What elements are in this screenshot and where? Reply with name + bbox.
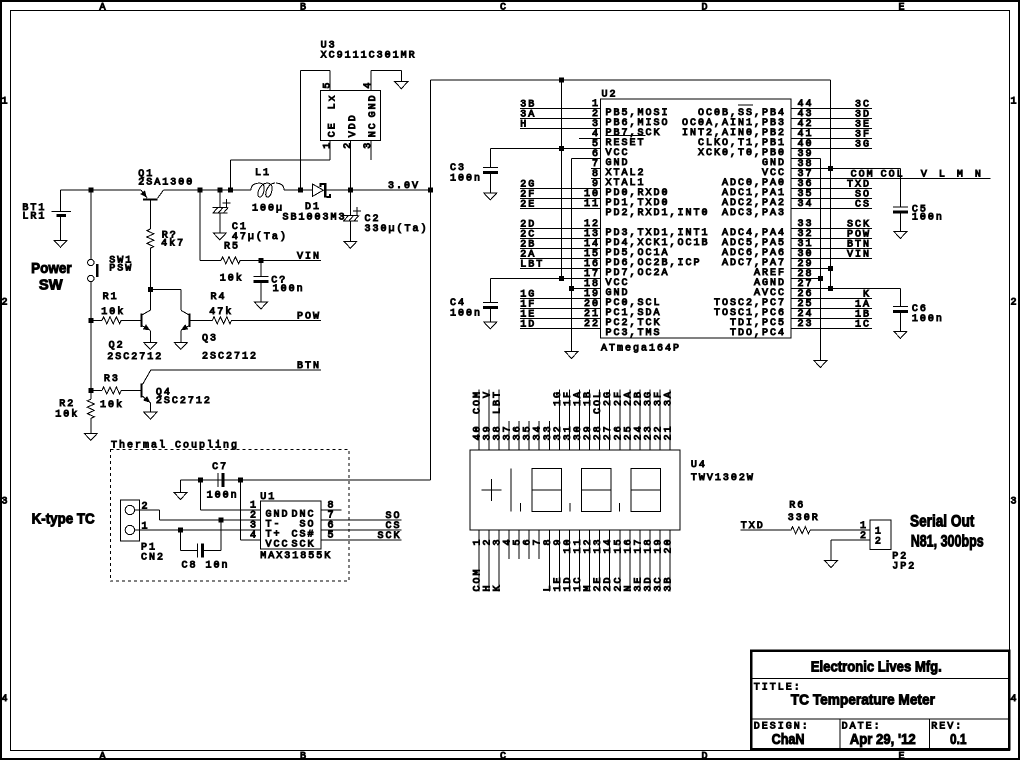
svg-text:VIN: VIN (297, 251, 321, 262)
svg-text:L1: L1 (255, 168, 271, 179)
capacitor C1 47u(Ta) (212, 190, 288, 243)
ground below U2 left (565, 352, 578, 359)
svg-text:BTN: BTN (297, 361, 321, 372)
net 3.0V (388, 181, 420, 192)
svg-text:U2: U2 (602, 89, 618, 100)
svg-text:B: B (300, 3, 308, 14)
wire U2 pin17 row (490, 278, 600, 280)
node VCC branch U2 left (559, 78, 564, 83)
wire ground stub C7 (180, 480, 182, 493)
svg-text:LBT: LBT (492, 390, 503, 414)
wire collector link to Q3 (150, 290, 181, 311)
ground below C4 (484, 322, 497, 329)
svg-text:TXD: TXD (741, 521, 765, 532)
svg-text:COL: COL (881, 170, 905, 181)
svg-text:E: E (898, 3, 906, 14)
svg-text:100n: 100n (207, 490, 239, 501)
wire U1 pin6 CS (321, 521, 402, 532)
svg-text:Q3: Q3 (202, 334, 218, 345)
ground below C? (254, 302, 267, 309)
U2 left pin numbers and stubs (584, 99, 601, 330)
wire U3 pin1 CE to rail (230, 140, 330, 190)
svg-text:A: A (99, 3, 107, 14)
svg-text:A: A (99, 752, 107, 760)
svg-text:100n: 100n (450, 174, 482, 185)
ground at P2 (825, 561, 838, 568)
wire U2 pin39 GND vertical right (791, 159, 821, 361)
svg-text:PSW: PSW (109, 264, 133, 275)
node R5 tap (198, 188, 203, 193)
LCD decimal point 3 (618, 503, 620, 511)
capacitor C8 10n (181, 520, 230, 572)
LCD digit 3 (631, 469, 661, 512)
wire pin27 AVCC to C6 (791, 289, 901, 307)
svg-text:4: 4 (363, 81, 374, 89)
net COM COL V L M N (791, 170, 991, 181)
label Power SW (31, 260, 72, 293)
svg-text:D: D (701, 752, 709, 760)
ground below Q4 (144, 412, 157, 419)
svg-text:3A: 3A (664, 390, 675, 406)
label K-type TC (32, 511, 95, 528)
svg-text:10k: 10k (101, 306, 125, 318)
svg-text:3: 3 (1010, 497, 1018, 508)
capacitor C5 100n (893, 205, 944, 232)
ground below C5 (894, 232, 907, 239)
svg-text:ADC3,PA3: ADC3,PA3 (722, 208, 786, 219)
inductor L1 100u (251, 168, 284, 215)
svg-text:3: 3 (1, 497, 9, 508)
svg-text:21: 21 (664, 424, 675, 440)
svg-text:0.1: 0.1 (950, 731, 967, 748)
svg-text:SB1003M3: SB1003M3 (283, 213, 347, 224)
svg-text:100n: 100n (450, 309, 482, 320)
svg-text:1C: 1C (855, 320, 871, 331)
svg-text:2: 2 (1010, 298, 1018, 309)
wire P1 pin1 to U1 T+ (135, 529, 261, 531)
svg-text:4k7: 4k7 (161, 238, 185, 250)
svg-text:N: N (975, 170, 983, 181)
resistor R? 4k7 (147, 229, 185, 290)
wire U1 pin5 SCK (321, 531, 402, 542)
svg-text:Thermal Coupling: Thermal Coupling (111, 439, 239, 451)
svg-text:Lx: Lx (327, 93, 338, 109)
transistor Q2 2SC2712 (107, 290, 163, 363)
ground at U3 pin4 (395, 82, 408, 89)
wire U1 pin8 DNC stub (321, 509, 342, 511)
resistor R6 330R (788, 501, 870, 534)
U2 right pin numbers and stubs (791, 99, 814, 330)
U2 left net label wires (520, 100, 601, 331)
ground below C1 (213, 233, 226, 240)
svg-text:R6: R6 (789, 501, 805, 512)
svg-text:CE: CE (327, 121, 338, 137)
svg-text:TDO,PC4: TDO,PC4 (730, 328, 786, 339)
svg-text:MAX31855K: MAX31855K (260, 551, 332, 562)
label Serial Out (910, 511, 984, 550)
svg-text:R2: R2 (59, 399, 75, 410)
svg-text:Apr 29, '12: Apr 29, '12 (850, 731, 916, 748)
wire U3 pin2 VDD to rail (349, 140, 351, 190)
svg-text:4: 4 (250, 531, 258, 542)
svg-text:CN2: CN2 (141, 553, 165, 564)
wire SW1 to R1 node (90, 282, 92, 321)
ground below Q2 (144, 343, 157, 350)
wire U3 pin5 Lx to rail (300, 70, 330, 190)
wire U3 pin4 GND (371, 70, 402, 90)
node C7 right (238, 478, 243, 483)
svg-text:2: 2 (1, 298, 9, 309)
svg-text:R3: R3 (104, 374, 120, 385)
node C7 left (198, 478, 203, 483)
svg-text:1: 1 (1, 97, 9, 108)
svg-text:LBT: LBT (520, 260, 544, 271)
svg-text:20: 20 (664, 538, 675, 554)
svg-text:47µ(Ta): 47µ(Ta) (232, 231, 288, 243)
svg-text:1: 1 (322, 141, 333, 149)
wire C7 node row (181, 479, 431, 481)
node Q1 base / Q2 Q3 collectors (148, 287, 153, 292)
U2 right net labels (791, 100, 872, 331)
svg-text:U4: U4 (691, 460, 707, 471)
svg-text:5: 5 (322, 81, 333, 89)
transistor Q4 2SC2712 (140, 370, 212, 412)
wire U1 pin7 SO (321, 511, 402, 522)
svg-text:D: D (701, 3, 709, 14)
svg-text:SW: SW (39, 277, 64, 294)
op-amp U1 MAX31855K (250, 492, 336, 562)
op-amp U2 ATmega164P body (601, 89, 791, 354)
svg-text:VIN: VIN (847, 250, 871, 261)
LCD decimal point 2 (569, 503, 571, 511)
wire P1 pin2 to U1 T- (135, 510, 261, 520)
svg-text:10k: 10k (55, 408, 79, 420)
node C8 right (218, 518, 223, 523)
ground below BT1 (54, 240, 67, 247)
wire P2 pin2 to ground (831, 540, 870, 560)
capacitor C7 100n (207, 462, 239, 501)
net POW (297, 311, 321, 322)
svg-text:GND: GND (368, 93, 379, 117)
svg-text:PC3,TMS: PC3,TMS (606, 328, 662, 339)
svg-text:XC9111C301MR: XC9111C301MR (321, 50, 417, 61)
svg-text:2SC2712: 2SC2712 (202, 352, 258, 363)
svg-text:H: H (520, 120, 528, 131)
resistor R1 10k (88, 292, 140, 324)
svg-text:47k: 47k (209, 306, 233, 318)
node C8 left (178, 528, 183, 533)
svg-text:100µ: 100µ (252, 204, 284, 215)
svg-text:1D: 1D (520, 320, 536, 331)
net BTN (297, 361, 321, 372)
net TXD (740, 521, 791, 532)
resistor R4 47k (191, 292, 321, 324)
wire U3 pin3 NC stub (370, 140, 372, 160)
node U2 pin17 VCC (559, 276, 564, 281)
wire main rail Q1 to corner (164, 189, 431, 191)
svg-text:C3: C3 (450, 163, 466, 174)
svg-text:2: 2 (343, 141, 354, 149)
transistor Q3 2SC2712 (181, 310, 258, 362)
svg-text:ChaN: ChaN (772, 731, 805, 748)
svg-text:V: V (921, 170, 929, 181)
switch SW1 PSW (88, 256, 134, 282)
LCD digit 2 (581, 469, 611, 512)
node U2 pin38 VCC (828, 166, 833, 171)
LCD decimal point 1 (520, 503, 522, 511)
resistor R2 10k (55, 391, 94, 434)
op-amp U3 XC9111C301MR (320, 40, 416, 148)
node U2 pin29 AREF (828, 266, 833, 271)
wire pin28 AGND (791, 278, 821, 280)
svg-text:D1: D1 (305, 202, 321, 213)
svg-text:2SA1300: 2SA1300 (138, 177, 194, 188)
svg-text:TC Temperature Meter: TC Temperature Meter (791, 692, 935, 709)
svg-text:C: C (500, 752, 508, 760)
capacitor C4 100n (450, 279, 498, 323)
node U2 pin18 GND (569, 286, 574, 291)
net VIN (297, 251, 321, 262)
capacitor C3 100n (450, 149, 498, 194)
U2 left pin labels (606, 108, 710, 339)
svg-text:330µ(Ta): 330µ(Ta) (365, 223, 429, 235)
svg-text:C8 10n: C8 10n (182, 561, 230, 572)
svg-text:C4: C4 (450, 298, 466, 309)
svg-text:10k: 10k (100, 399, 124, 411)
svg-text:K: K (492, 583, 503, 591)
node R3 R2 junction (88, 388, 93, 393)
ground below C2 (344, 241, 357, 248)
wire rail to SW1 (90, 190, 92, 259)
svg-text:N81, 300bps: N81, 300bps (911, 531, 984, 550)
svg-text:2: 2 (142, 502, 150, 513)
svg-text:VDD: VDD (348, 113, 359, 137)
resistor R3 10k (91, 374, 141, 411)
svg-text:1: 1 (1010, 97, 1018, 108)
svg-text:POW: POW (297, 311, 321, 322)
svg-text:2E: 2E (520, 200, 536, 211)
svg-text:VCC: VCC (266, 540, 290, 551)
U4 top pins (472, 390, 674, 450)
transistor Q1 2SA1300 (138, 169, 194, 229)
svg-text:C: C (500, 3, 508, 14)
wire BTN from Q4 (151, 369, 321, 371)
svg-text:10k: 10k (220, 273, 244, 285)
LCD U4 TWV1302W body (470, 450, 755, 530)
wire 3.0V feed to U2 (430, 80, 830, 190)
ground at C7 (174, 493, 187, 500)
node U2 pin5 VCC (559, 146, 564, 151)
wire U2 pin5 row (490, 148, 600, 150)
svg-text:R5: R5 (224, 242, 240, 253)
capacitor C? 100n (253, 260, 304, 302)
diode D1 SB1003M3 (283, 183, 347, 224)
svg-text:NC: NC (368, 121, 379, 137)
ground below U2 right (814, 361, 827, 368)
svg-text:100n: 100n (912, 213, 944, 224)
node 3.0V corner (428, 188, 433, 193)
svg-text:2: 2 (875, 536, 883, 547)
node VDD C2 tap (348, 188, 353, 193)
svg-text:TWV1302W: TWV1302W (691, 473, 755, 484)
svg-text:1: 1 (142, 522, 150, 533)
wire pin38 to C5 (791, 169, 901, 208)
wire pin29 AREF (791, 268, 831, 270)
svg-text:M: M (957, 170, 965, 181)
svg-text:CS: CS (855, 200, 871, 211)
svg-text:Electronic Lives Mfg.: Electronic Lives Mfg. (811, 659, 942, 676)
svg-text:3G: 3G (855, 140, 871, 151)
svg-text:PD2,RXD1,INT0: PD2,RXD1,INT0 (606, 208, 710, 219)
wire U2 pin4 RESET stub (579, 138, 601, 140)
svg-text:R1: R1 (103, 292, 119, 303)
svg-text:Serial Out: Serial Out (910, 511, 975, 530)
svg-text:JP2: JP2 (892, 561, 916, 572)
connector P2 JP2 (860, 520, 916, 572)
svg-text:U1: U1 (260, 492, 276, 503)
wire U1 pin4 VCC (241, 480, 261, 540)
ground below Q3 (174, 343, 187, 350)
node C1 tap (217, 188, 222, 193)
svg-text:L: L (939, 170, 947, 181)
svg-text:Q2: Q2 (109, 341, 125, 352)
ground below R2 (84, 433, 97, 440)
svg-text:3: 3 (363, 141, 374, 149)
node SW1 top (88, 188, 93, 193)
LCD leading 1 segment (510, 469, 512, 512)
svg-text:4: 4 (1010, 694, 1018, 705)
LCD plus sign segment (482, 479, 502, 501)
svg-text:ATmega164P: ATmega164P (601, 344, 681, 355)
connector P1 CN2 (120, 500, 165, 564)
svg-text:SCK: SCK (378, 531, 402, 542)
node VIN C? tap (258, 258, 263, 263)
svg-text:E: E (898, 752, 906, 760)
node Lx tap (298, 188, 303, 193)
svg-text:Power: Power (31, 260, 72, 277)
wire U2 GND vertical (572, 159, 601, 352)
LCD digit 1 (532, 469, 562, 512)
wire SW1 to R3 node (90, 320, 92, 390)
wire VCC vertical U2 left (561, 80, 563, 279)
ground below C6 (894, 331, 907, 338)
svg-text:R4: R4 (211, 292, 227, 303)
svg-text:4: 4 (1, 694, 9, 705)
svg-text:3B: 3B (664, 575, 675, 591)
svg-text:3.0V: 3.0V (388, 181, 420, 192)
dashed box Thermal Coupling (110, 439, 349, 581)
wire VCC vertical U2 right (829, 80, 831, 289)
svg-text:K-type TC: K-type TC (32, 511, 95, 528)
svg-text:B: B (300, 752, 308, 760)
svg-text:2SC2712: 2SC2712 (156, 396, 212, 407)
svg-text:330R: 330R (788, 513, 820, 524)
svg-text:100n: 100n (273, 284, 305, 295)
capacitor C6 100n (893, 304, 944, 331)
capacitor C2 330u(Ta) (343, 190, 429, 241)
battery BT1 LR1 (22, 203, 71, 240)
title block (750, 651, 1009, 750)
svg-text:C7: C7 (212, 462, 228, 473)
node CE wire tap (228, 188, 233, 193)
svg-text:2SC2712: 2SC2712 (107, 352, 163, 363)
svg-text:LR1: LR1 (22, 211, 46, 222)
wire U1 pin1 GND (201, 480, 261, 510)
wire 3.0V down to thermal coupling (429, 190, 431, 480)
svg-text:SCK: SCK (292, 540, 316, 551)
resistor R5 10k (200, 190, 321, 285)
svg-text:100n: 100n (912, 314, 944, 325)
node U2 pin28 AGND (818, 276, 823, 281)
U2 right pin labels (682, 105, 786, 339)
wire battery positive rail (61, 190, 142, 212)
ground below C3 (484, 193, 497, 200)
node U2 pin27 AVCC (828, 286, 833, 291)
U4 bottom pins (472, 530, 674, 592)
